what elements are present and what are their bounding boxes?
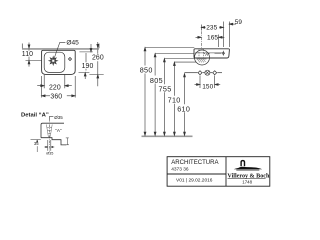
svg-text:150: 150 (202, 83, 213, 90)
dimension 805 (154, 54, 156, 136)
svg-text:ARCHITECTURA: ARCHITECTURA (171, 160, 219, 166)
floor line (142, 135, 193, 137)
logotype underline (228, 178, 266, 180)
detail A right dimension bracket (66, 138, 69, 145)
dimension 260 (right, wall to basin bottom) (89, 42, 103, 86)
dimension 360 (bottom, basin width) (42, 76, 76, 98)
svg-text:Ø35: Ø35 (54, 115, 63, 120)
tap centerline (side, dash-dot) (200, 26, 202, 49)
detail A tap hole cone (46, 125, 52, 137)
svg-text:235: 235 (206, 25, 217, 32)
svg-text:190: 190 (82, 63, 94, 70)
dimension 235 (top of side view) (201, 22, 223, 48)
wall fixing row: dowel symbols below side view (185, 70, 223, 75)
svg-text:220: 220 (49, 84, 61, 91)
washbasin inner bowl (plan) (44, 52, 65, 72)
svg-text:Ø35: Ø35 (46, 152, 53, 156)
svg-text:Ø45: Ø45 (66, 39, 79, 46)
leader line Ø45 (54, 42, 66, 59)
level connector 805 (155, 53, 195, 55)
washbasin outer rim (plan) (42, 50, 76, 74)
svg-text:4373 36: 4373 36 (171, 166, 189, 172)
detail circle A (195, 50, 210, 65)
svg-text:755: 755 (159, 85, 172, 94)
svg-text:360: 360 (50, 93, 62, 100)
dimension 850 (144, 48, 146, 136)
overflow hole (plan) (69, 58, 72, 61)
detail A hole walls below (48, 140, 51, 151)
hatch marks inside detail circle (197, 59, 207, 63)
dimension 190 (right, bowl depth) (79, 44, 93, 79)
dimension 220 (bottom, bowl width) (37, 75, 72, 88)
dimension 110 (wall to tap center, left) (26, 43, 42, 67)
fixing hole (side view) (215, 51, 225, 56)
svg-text:805: 805 (150, 76, 163, 85)
svg-text:“A”: “A” (55, 128, 62, 133)
svg-text:850: 850 (140, 66, 153, 75)
svg-text:Detail “A”: Detail “A” (21, 113, 49, 119)
wall line (plan view) (22, 48, 99, 50)
rim inner line (side) (195, 52, 222, 54)
side profile of basin (194, 49, 229, 58)
title block frame (167, 157, 270, 187)
svg-text:610: 610 (177, 104, 190, 113)
level connector 850 (145, 47, 194, 49)
detail A rim section outline (41, 123, 66, 145)
detail A centerline (48, 119, 50, 152)
dimension 165 (196, 35, 225, 48)
dimension 755 (163, 59, 165, 136)
level connector 755 (164, 58, 194, 60)
wall end ticks (22, 44, 99, 49)
svg-text:V01 | 29.02.2016: V01 | 29.02.2016 (176, 178, 213, 184)
svg-text:710: 710 (168, 96, 181, 105)
svg-text:165: 165 (207, 35, 218, 42)
dimension 610 (184, 74, 186, 136)
level connector 710 (174, 61, 196, 63)
detail A top dimension Ø35 (49, 117, 53, 120)
tap hole symbol (49, 56, 58, 65)
svg-text:“A”: “A” (204, 52, 211, 57)
dimension 59 (top right of side view) (229, 22, 236, 48)
svg-text:1748: 1748 (242, 180, 252, 185)
svg-text:110: 110 (22, 51, 33, 58)
dimension 710 (173, 62, 175, 135)
tap hole hidden lines (side) (199, 49, 204, 57)
svg-text:59: 59 (235, 19, 243, 26)
Villeroy & Boch logo icon (234, 160, 262, 171)
detail A left dimension 35 (31, 140, 41, 152)
svg-text:260: 260 (92, 55, 104, 62)
dimension 150 (between dowels) (195, 76, 221, 89)
detail A hole width arrows (44, 146, 54, 147)
svg-text:35: 35 (34, 141, 39, 146)
